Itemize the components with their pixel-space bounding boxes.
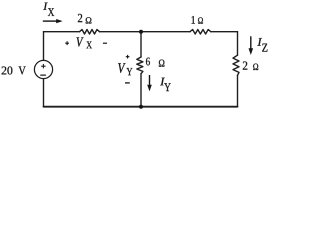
label VY voltage — [118, 63, 125, 73]
current arrow IZ — [249, 36, 254, 55]
voltage source plus mark — [42, 64, 46, 68]
junction node bottom — [139, 105, 143, 109]
resistor R4 2 ohm right vertical zigzag — [233, 55, 239, 75]
current arrow IY — [147, 75, 152, 91]
wire middle lower — [140, 74, 142, 107]
wire bottom — [44, 106, 238, 108]
value label 2 ohm right — [243, 62, 248, 70]
voltage source V1 20V circle — [34, 60, 52, 78]
wire middle upper — [140, 32, 142, 57]
label VX minus sign — [103, 42, 107, 44]
label VX voltage — [76, 37, 83, 46]
wire left lower — [43, 79, 45, 107]
wire top-right segment — [211, 31, 238, 33]
source value label 20 V — [2, 67, 13, 75]
current arrow IX — [43, 19, 63, 23]
label VY minus sign — [125, 82, 130, 84]
wire top-middle segment — [100, 31, 191, 33]
wire right lower — [237, 75, 239, 106]
resistor R1 2 ohm horizontal zigzag — [80, 30, 100, 35]
wire top-left segment — [44, 31, 80, 33]
label VX plus sign — [65, 41, 69, 45]
resistor R3 6 ohm vertical zigzag — [137, 57, 143, 74]
value label 6 ohm — [146, 58, 150, 66]
label IZ current — [257, 38, 262, 46]
wire right upper — [237, 32, 239, 56]
value label 2 ohm — [78, 14, 82, 22]
wire left upper — [43, 32, 45, 61]
value label 1 ohm — [192, 16, 195, 24]
junction node top — [139, 30, 143, 34]
label IX current — [43, 3, 48, 10]
label IY current — [160, 78, 165, 86]
voltage source minus mark — [41, 74, 46, 76]
resistor R2 1 ohm horizontal zigzag — [190, 30, 211, 35]
label VY plus sign — [126, 55, 130, 59]
